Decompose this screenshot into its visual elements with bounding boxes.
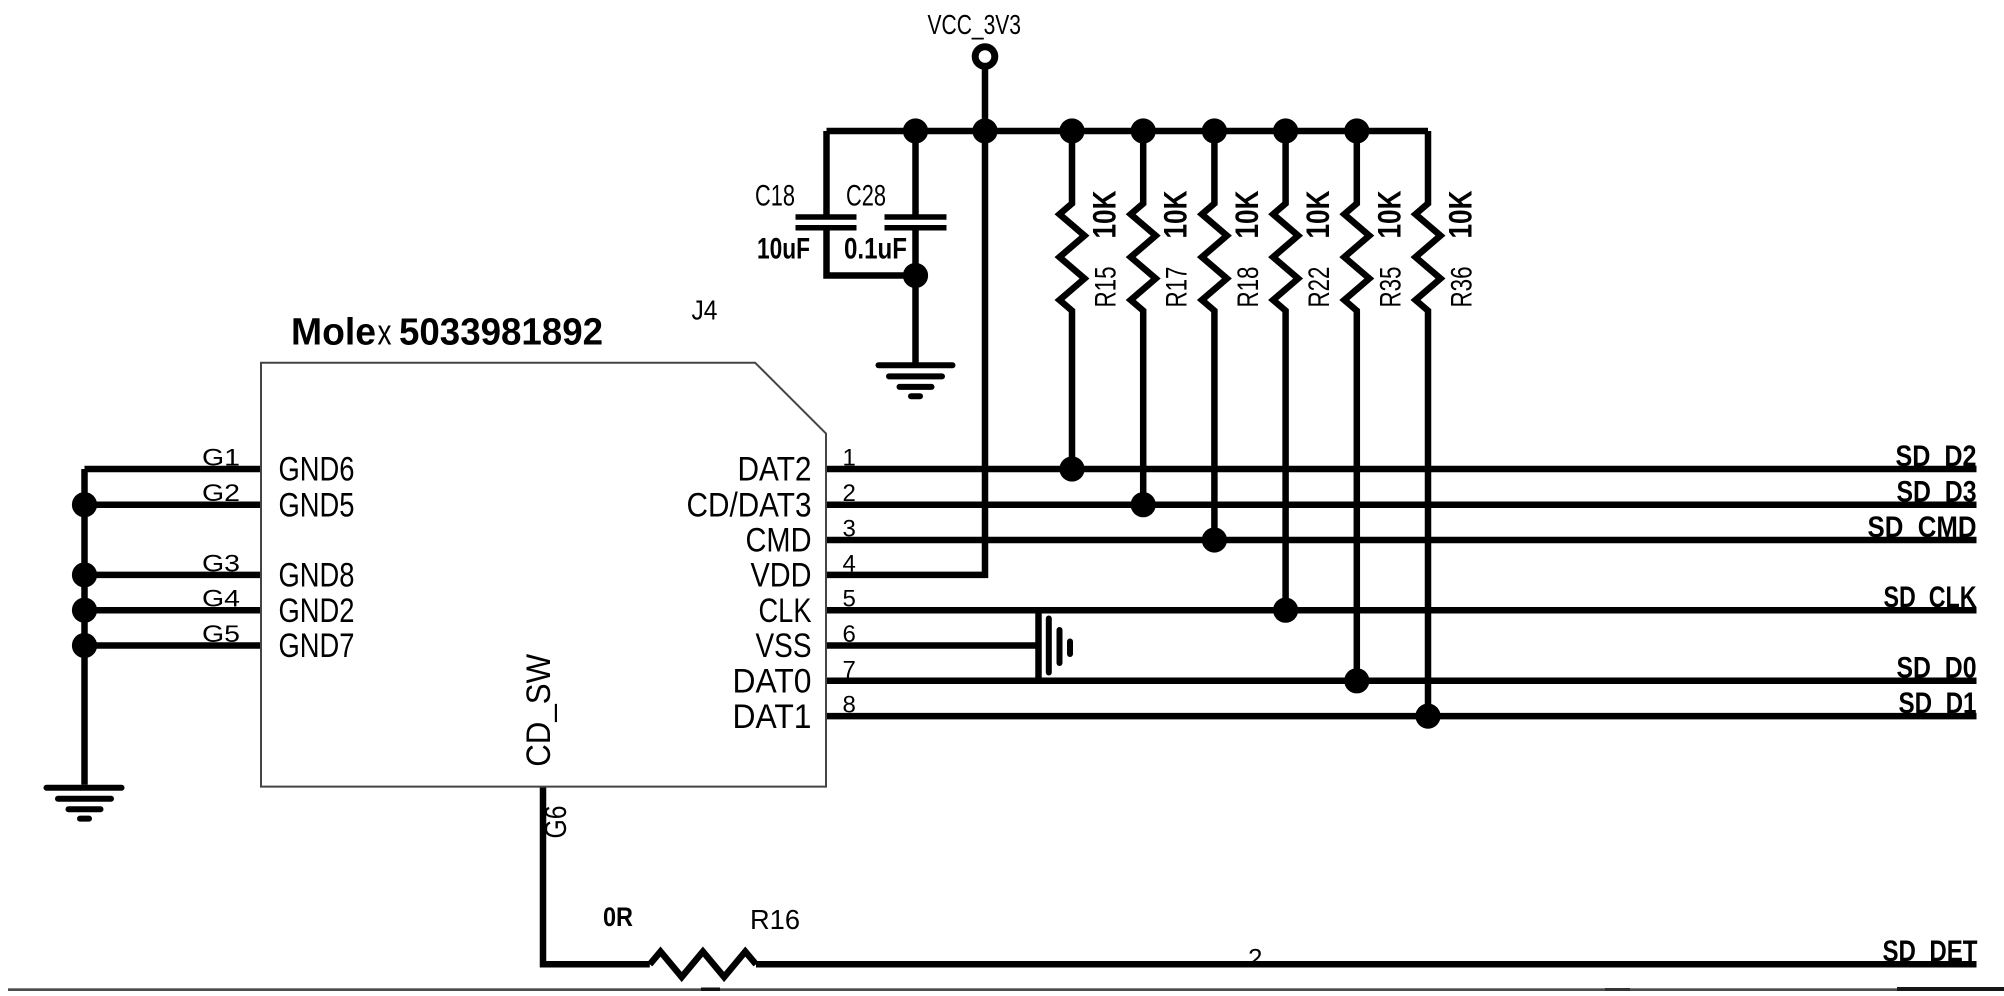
sheet divider line <box>8 988 2004 991</box>
svg-text:CD_SW: CD_SW <box>520 654 558 767</box>
label C18 <box>755 180 795 213</box>
pin name GND6 <box>279 451 355 489</box>
svg-text:Mole: Mole <box>291 312 376 354</box>
junction rail/VCC <box>972 118 997 143</box>
wire R16 to SD_DET <box>756 961 1977 968</box>
capacitor C28 plates <box>885 217 947 228</box>
pin number G2 <box>202 480 240 507</box>
net label SD_D3 <box>1897 476 1977 509</box>
svg-text:CD/DAT3: CD/DAT3 <box>687 486 812 524</box>
wire CD/DAT3 to SD_D3 <box>826 501 1977 508</box>
resistor R17 body <box>1131 131 1156 505</box>
pin number 5 <box>843 586 856 613</box>
svg-text:0.1uF: 0.1uF <box>844 232 907 265</box>
title Molex 5033981892 <box>291 312 603 354</box>
pin number G6 <box>538 806 573 839</box>
junction rail/R22 <box>1273 118 1298 143</box>
svg-text:SD_D2: SD_D2 <box>1896 440 1977 473</box>
svg-text:G5: G5 <box>202 621 240 648</box>
connector J4 body Molex 5033981892 <box>261 363 826 787</box>
svg-text:G3: G3 <box>202 550 240 577</box>
svg-text:GND6: GND6 <box>279 451 355 489</box>
svg-text:10K: 10K <box>1087 191 1123 239</box>
wire pin G2 GND5 <box>85 501 262 508</box>
junction rail/R17 <box>1131 118 1156 143</box>
divider dark segment right <box>1897 987 2004 991</box>
svg-text:DAT0: DAT0 <box>733 663 812 701</box>
junction rail/C28 <box>903 118 928 143</box>
svg-text:C18: C18 <box>755 180 795 213</box>
pin number 6 <box>843 621 856 648</box>
svg-text:x: x <box>378 312 392 353</box>
resistor R22 body <box>1273 131 1298 610</box>
svg-text:10K: 10K <box>1300 191 1336 239</box>
resistor R35 body <box>1344 131 1369 681</box>
designator R36 <box>1446 267 1479 308</box>
resistor R18 body <box>1202 131 1227 540</box>
designator R22 <box>1303 267 1336 308</box>
svg-text:DAT2: DAT2 <box>738 451 812 489</box>
net label SD_D1 <box>1899 687 1977 720</box>
svg-text:6: 6 <box>843 621 856 648</box>
node 2 (hidden sheet number under wire) <box>1248 943 1262 973</box>
svg-text:G6: G6 <box>538 806 573 839</box>
pin name GND7 <box>279 627 355 665</box>
net label SD_D2 <box>1896 440 1977 473</box>
pin number G3 <box>202 550 240 577</box>
pin number 2 <box>843 480 856 507</box>
junction bus/G3 <box>72 562 97 587</box>
junction R17/CD-DAT3 <box>1131 492 1156 517</box>
svg-text:0R: 0R <box>603 902 633 932</box>
divider dark mark left <box>701 988 720 992</box>
svg-text:SD_D0: SD_D0 <box>1897 652 1977 685</box>
designator R15 <box>1090 267 1123 308</box>
svg-text:VDD: VDD <box>751 557 812 595</box>
wire CD_SW from pin G6 <box>543 787 650 965</box>
svg-text:R36: R36 <box>1446 267 1479 308</box>
value 10K of R15 <box>1087 191 1123 239</box>
pin number 8 <box>843 692 856 719</box>
value 10uF <box>757 232 810 265</box>
wire pin G1 GND6 <box>85 466 262 473</box>
junction R18/CMD <box>1202 527 1227 552</box>
ground symbol VSS small bars <box>1049 619 1070 673</box>
wire C28 bottom to ground <box>912 230 919 362</box>
pin number 3 <box>843 516 856 543</box>
pin name GND8 <box>279 557 355 595</box>
svg-text:G2: G2 <box>202 480 240 507</box>
svg-text:SD_CMD: SD_CMD <box>1868 511 1977 544</box>
resistor R16 body <box>650 952 756 977</box>
junction bus/G4 <box>72 598 97 623</box>
svg-text:DAT1: DAT1 <box>733 698 812 736</box>
wire DAT2 to SD_D2 <box>826 466 1977 473</box>
junction rail/R18 <box>1202 118 1227 143</box>
pin name CMD <box>746 522 812 560</box>
svg-text:GND8: GND8 <box>279 557 355 595</box>
svg-text:R17: R17 <box>1161 267 1194 308</box>
wire pin G4 GND2 <box>85 607 262 614</box>
net label SD_CMD <box>1868 511 1977 544</box>
svg-text:10K: 10K <box>1443 191 1479 239</box>
junction R35/DAT0 <box>1344 668 1369 693</box>
pin number G4 <box>202 586 240 613</box>
svg-text:2: 2 <box>1248 943 1262 973</box>
svg-text:5: 5 <box>843 586 856 613</box>
wire pin G5 GND7 <box>85 642 262 649</box>
junction R36/DAT1 <box>1415 704 1440 729</box>
net label SD_D0 <box>1897 652 1977 685</box>
svg-text:SD_D1: SD_D1 <box>1899 687 1977 720</box>
svg-text:10K: 10K <box>1158 191 1194 239</box>
value 10K of R36 <box>1443 191 1479 239</box>
power port VCC_3V3 circle <box>975 47 995 67</box>
value 10K of R35 <box>1371 191 1407 239</box>
pin name GND5 <box>279 486 355 524</box>
designator R16 <box>750 904 800 935</box>
junction R22/CLK <box>1273 598 1298 623</box>
svg-text:R18: R18 <box>1232 267 1265 308</box>
svg-text:R35: R35 <box>1374 267 1407 308</box>
junction rail/R35 <box>1344 118 1369 143</box>
wire CMD to SD_CMD <box>826 537 1977 544</box>
value 10K of R22 <box>1300 191 1336 239</box>
label VCC_3V3 <box>928 9 1022 40</box>
pin name DAT2 <box>738 451 812 489</box>
svg-text:J4: J4 <box>692 295 718 326</box>
pin number 1 <box>843 445 856 472</box>
pin name GND2 <box>279 592 355 630</box>
pin name CD/DAT3 <box>687 486 812 524</box>
svg-text:2: 2 <box>843 480 856 507</box>
ground symbol under C28 <box>879 365 953 396</box>
pin number G5 <box>202 621 240 648</box>
svg-text:10uF: 10uF <box>757 232 810 265</box>
resistor R15 body <box>1060 131 1085 469</box>
svg-text:3: 3 <box>843 516 856 543</box>
wire CLK to SD_CLK <box>826 607 1977 614</box>
wire VCC stem to VDD pin 4 <box>826 69 985 575</box>
pin name VDD <box>751 557 812 595</box>
pin number 7 <box>843 656 856 683</box>
value 10K of R17 <box>1158 191 1194 239</box>
svg-text:SD_DET: SD_DET <box>1883 935 1978 968</box>
value 0R of R16 <box>603 902 633 932</box>
designator R17 <box>1161 267 1194 308</box>
label C28 <box>846 180 886 213</box>
pin name DAT1 <box>733 698 812 736</box>
svg-text:C28: C28 <box>846 180 886 213</box>
net label SD_CLK <box>1884 581 1977 614</box>
wire C18 bottom to junction <box>827 230 916 275</box>
designator J4 <box>692 295 718 326</box>
svg-text:4: 4 <box>843 550 856 577</box>
svg-text:10K: 10K <box>1371 191 1407 239</box>
svg-text:GND7: GND7 <box>279 627 355 665</box>
svg-text:CMD: CMD <box>746 522 812 560</box>
junction R15/DAT2 <box>1059 456 1084 481</box>
divider dark mark middle <box>1605 988 1630 991</box>
junction C18/C28 <box>903 263 928 288</box>
svg-text:GND5: GND5 <box>279 486 355 524</box>
wire DAT1 to SD_D1 <box>826 713 1977 720</box>
resistor R36 body <box>1416 131 1441 716</box>
wire pin G3 GND8 <box>85 572 262 579</box>
svg-text:CLK: CLK <box>759 592 812 630</box>
pin name VSS <box>756 627 812 665</box>
designator R18 <box>1232 267 1265 308</box>
designator R35 <box>1374 267 1407 308</box>
svg-text:8: 8 <box>843 692 856 719</box>
svg-text:G1: G1 <box>202 445 240 472</box>
svg-text:5033981892: 5033981892 <box>399 312 603 354</box>
svg-text:R22: R22 <box>1303 267 1336 308</box>
svg-text:VCC_3V3: VCC_3V3 <box>928 9 1022 40</box>
svg-text:G4: G4 <box>202 586 240 613</box>
svg-text:7: 7 <box>843 656 856 683</box>
pin name CD_SW <box>520 654 558 767</box>
wire ground bus left <box>81 469 88 785</box>
wire C28 top stub <box>912 131 919 215</box>
junction bus/G2 <box>72 492 97 517</box>
wire DAT0 to SD_D0 <box>826 678 1977 685</box>
svg-text:SD_D3: SD_D3 <box>1897 476 1977 509</box>
svg-text:R16: R16 <box>750 904 800 935</box>
value 0.1uF <box>844 232 907 265</box>
svg-text:VSS: VSS <box>756 627 812 665</box>
pin number 4 <box>843 550 856 577</box>
svg-text:GND2: GND2 <box>279 592 355 630</box>
svg-text:1: 1 <box>843 445 856 472</box>
ground VSS long bar <box>1035 610 1042 681</box>
svg-text:10K: 10K <box>1229 191 1265 239</box>
wire VCC_3V3 power rail <box>827 128 1429 135</box>
capacitor C18 plates <box>796 217 857 228</box>
value 10K of R18 <box>1229 191 1265 239</box>
pin name CLK <box>759 592 812 630</box>
svg-text:R15: R15 <box>1090 267 1123 308</box>
svg-text:SD_CLK: SD_CLK <box>1884 581 1977 614</box>
pin number G1 <box>202 445 240 472</box>
net label SD_DET <box>1883 935 1978 968</box>
pin name DAT0 <box>733 663 812 701</box>
junction bus/G5 <box>72 633 97 658</box>
wire VSS to ground <box>826 642 1039 649</box>
ground symbol left <box>47 788 122 819</box>
wire C18 top stub <box>823 131 830 215</box>
junction rail/R15 <box>1059 118 1084 143</box>
